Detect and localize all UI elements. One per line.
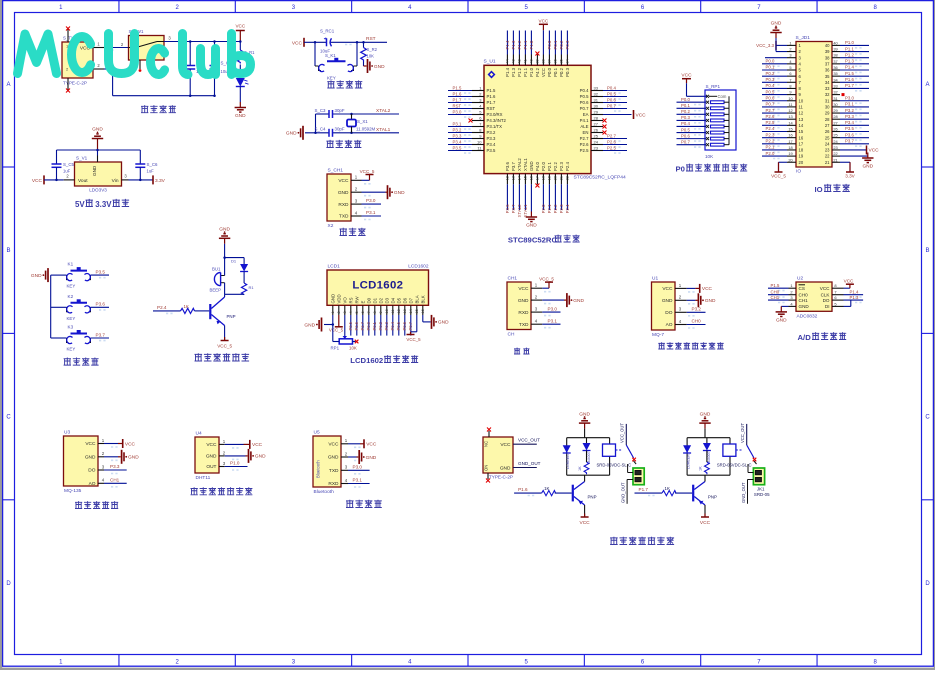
pin 1 CS — [768, 283, 805, 291]
svg-text:P3.6: P3.6 — [505, 204, 510, 213]
svg-text:LCD1602: LCD1602 — [350, 356, 383, 365]
svg-text:SRD-05VDC-SL-C: SRD-05VDC-SL-C — [597, 463, 632, 468]
wire alarm top — [223, 244, 244, 259]
svg-text:18: 18 — [542, 176, 546, 180]
pin 7 JD1 — [762, 77, 802, 85]
connector JK1 SRD-05 — [621, 464, 645, 504]
svg-text:C: C — [925, 415, 930, 421]
svg-text:STC89C52RC_LQFP44: STC89C52RC_LQFP44 — [574, 175, 626, 181]
pin 2 GND — [662, 295, 695, 304]
resistor network S_RP1 10K — [705, 84, 736, 159]
svg-text:SRD-05VDC-SL-C: SRD-05VDC-SL-C — [717, 463, 752, 468]
svg-text:2: 2 — [789, 47, 791, 52]
relay coil SRD-05VDC-SL-C — [597, 444, 632, 468]
capacitor S_C6 1uF — [135, 150, 158, 181]
pin 5 DI — [825, 300, 851, 309]
svg-text:S_R2: S_R2 — [367, 47, 378, 52]
svg-text:P0.0: P0.0 — [766, 59, 775, 64]
svg-text:19: 19 — [548, 176, 552, 180]
net XTAL1 — [376, 127, 391, 133]
svg-text:3.3V: 3.3V — [845, 174, 855, 179]
pin 33 JD1 — [825, 83, 869, 91]
svg-text:U3: U3 — [64, 430, 70, 436]
svg-text:14: 14 — [799, 123, 804, 128]
svg-text:28: 28 — [594, 116, 599, 121]
svg-text:P1.6: P1.6 — [453, 91, 462, 96]
connector JK1 SRD-05 — [741, 464, 770, 504]
transistor Q1 PNP — [209, 297, 235, 326]
title 电源电路 — [141, 105, 176, 113]
svg-text:P3.4: P3.4 — [845, 120, 854, 125]
pin 23 P2.5 — [580, 145, 627, 153]
title 按键电路 — [64, 358, 99, 366]
svg-text:P1.3: P1.3 — [845, 59, 854, 64]
svg-text:VCC_3.3: VCC_3.3 — [756, 43, 774, 48]
svg-text:S_C6: S_C6 — [147, 162, 159, 167]
capacitor S_RC1 10uF — [320, 29, 335, 54]
svg-text:29: 29 — [833, 108, 837, 113]
pin 3 TXD — [329, 465, 361, 474]
svg-text:P3.1: P3.1 — [453, 121, 462, 126]
svg-text:16: 16 — [788, 133, 792, 138]
pin 2 P1.6 — [448, 91, 496, 99]
pin 3 P1.7 — [448, 97, 496, 105]
svg-text:STC89C52RC: STC89C52RC — [508, 236, 558, 245]
wire xtal1 — [305, 132, 399, 135]
wire Vin — [122, 174, 154, 180]
ground GND mq7 — [698, 293, 716, 307]
resistor RP1.8 — [706, 143, 729, 146]
svg-text:RW: RW — [354, 295, 359, 303]
pin 24 JD1 — [825, 139, 869, 147]
svg-text:44: 44 — [506, 59, 510, 63]
pin 29 EA — [583, 110, 646, 120]
svg-text:GND: GND — [31, 273, 42, 279]
svg-text:P3.2: P3.2 — [692, 307, 702, 312]
svg-text:P2.2: P2.2 — [766, 139, 775, 144]
transistor Q PNP relay — [692, 475, 717, 517]
pin 34 JD1 — [825, 77, 869, 85]
svg-text:D: D — [925, 581, 930, 587]
svg-text:38: 38 — [825, 55, 830, 60]
svg-text:VCC_OUT: VCC_OUT — [740, 423, 745, 443]
svg-text:13: 13 — [403, 309, 407, 313]
svg-text:S_RP1: S_RP1 — [706, 84, 721, 89]
svg-text:P0.6: P0.6 — [681, 133, 690, 138]
svg-text:P0.1: P0.1 — [766, 65, 775, 70]
net P3.1 — [362, 210, 382, 216]
svg-text:CH0: CH0 — [799, 292, 809, 297]
svg-text:P3.2: P3.2 — [487, 130, 496, 135]
svg-text:10K: 10K — [349, 346, 357, 351]
svg-text:P2.0: P2.0 — [541, 204, 546, 213]
svg-text:GND: GND — [255, 454, 266, 460]
svg-text:20: 20 — [554, 176, 558, 180]
wire BLA to VCC_5 — [406, 315, 421, 342]
svg-text:GND: GND — [304, 322, 315, 328]
ground GND relay — [699, 411, 711, 428]
title A/D转换电路 — [798, 332, 847, 342]
net XTAL2 — [376, 108, 391, 114]
svg-text:P3.1: P3.1 — [548, 318, 558, 323]
pin 39 P4.2 — [535, 52, 540, 77]
svg-text:XTAL2: XTAL2 — [376, 108, 391, 114]
svg-text:B: B — [925, 248, 929, 254]
svg-text:P0.4: P0.4 — [607, 85, 616, 90]
svg-text:P3.0: P3.0 — [453, 109, 462, 114]
svg-text:P3.2: P3.2 — [453, 127, 462, 132]
pin 4 RST — [448, 103, 495, 111]
svg-text:P3.3: P3.3 — [110, 464, 120, 469]
svg-text:15: 15 — [524, 176, 528, 180]
power port VCC_5 VDD — [329, 315, 344, 333]
svg-text:PNP: PNP — [227, 314, 236, 319]
svg-text:10: 10 — [385, 309, 389, 313]
svg-text:13: 13 — [788, 114, 792, 119]
wire GND download — [362, 191, 388, 193]
svg-text:MQ-7: MQ-7 — [652, 332, 664, 338]
svg-text:4: 4 — [349, 311, 353, 313]
svg-text:P4.3/INT2: P4.3/INT2 — [487, 118, 507, 123]
pin 27 ALE — [580, 122, 606, 130]
net P3.3 mq135 — [104, 464, 127, 470]
svg-text:P1.1: P1.1 — [523, 40, 528, 49]
svg-text:P3.0: P3.0 — [845, 95, 854, 100]
svg-text:17: 17 — [788, 139, 792, 144]
resistor RP1.2 — [706, 107, 729, 110]
svg-text:GND: GND — [700, 411, 711, 417]
pin 42 P1.2 — [517, 31, 522, 77]
svg-text:6: 6 — [789, 71, 791, 76]
sensor U1 MQ-7 — [652, 276, 676, 339]
svg-text:1K: 1K — [544, 486, 549, 491]
display LCD1 LCD1602 — [327, 264, 429, 306]
pin 2 GND — [206, 450, 239, 459]
net P0.2 wire — [677, 109, 707, 117]
svg-text:PNP: PNP — [588, 495, 597, 500]
svg-text:VCC: VCC — [541, 68, 546, 77]
wire key bus — [50, 275, 52, 338]
pin 4 JD1 — [762, 59, 802, 67]
pin 2 GND — [85, 451, 118, 460]
net CH1 mq135 — [104, 478, 127, 484]
pin 29 JD1 — [825, 108, 869, 116]
net P0.3 wire — [677, 115, 707, 123]
svg-text:K2: K2 — [68, 294, 74, 299]
svg-text:39: 39 — [536, 59, 540, 63]
pin 1 GND — [330, 294, 335, 315]
svg-text:C: C — [6, 415, 11, 421]
net P3.1 serial — [542, 318, 560, 324]
svg-text:VCC_5: VCC_5 — [329, 328, 344, 333]
svg-text:P0.2: P0.2 — [681, 109, 690, 114]
svg-text:P3.3: P3.3 — [845, 114, 854, 119]
power port VCC mq135 — [104, 439, 136, 448]
pin 26 JD1 — [825, 126, 869, 134]
svg-text:26: 26 — [594, 128, 599, 133]
svg-text:GND: GND — [330, 294, 335, 304]
resistor 1K relay — [578, 451, 589, 475]
svg-text:VCC: VCC — [85, 441, 96, 447]
net P3.0 — [362, 198, 382, 204]
relay coil SRD-05VDC-SL-C — [717, 444, 752, 468]
svg-text:35: 35 — [825, 74, 830, 79]
net P0.4 wire — [677, 121, 707, 129]
svg-text:GND: GND — [526, 222, 537, 228]
svg-text:30pF: 30pF — [335, 127, 345, 132]
svg-text:26: 26 — [825, 129, 830, 134]
power port VCC relay — [580, 514, 591, 527]
svg-text:P3.6: P3.6 — [845, 132, 854, 137]
pin 15 XTAL1 — [523, 158, 528, 218]
svg-text:P0.4: P0.4 — [580, 88, 589, 93]
svg-text:P0.1: P0.1 — [553, 40, 558, 49]
svg-text:P1.2: P1.2 — [517, 40, 522, 49]
LED LGREEN relay — [683, 445, 691, 469]
svg-text:P4.0: P4.0 — [535, 162, 540, 171]
svg-text:VCC: VCC — [252, 442, 263, 448]
svg-text:39: 39 — [825, 49, 830, 54]
wire GND dht11 — [225, 455, 248, 457]
svg-text:3: 3 — [343, 311, 347, 313]
svg-text:1: 1 — [789, 40, 791, 45]
resistor S_R2 10K — [361, 42, 378, 66]
key K2 — [51, 294, 91, 321]
pin 10 P3.4 — [448, 139, 496, 147]
pin 33 P0.4 — [580, 85, 627, 93]
pin 38 VCC — [539, 18, 549, 77]
pin 19 JD1 — [762, 151, 804, 159]
svg-text:D1: D1 — [231, 259, 237, 264]
svg-text:NC: NC — [484, 441, 489, 447]
svg-text:7: 7 — [789, 77, 791, 82]
svg-text:37: 37 — [548, 59, 552, 63]
svg-text:A/D: A/D — [798, 333, 812, 342]
svg-text:RXD: RXD — [328, 481, 339, 487]
svg-text:P1.0: P1.0 — [529, 40, 534, 49]
pin 16 BLK — [420, 295, 425, 315]
svg-text:S_V1: S_V1 — [76, 156, 88, 161]
svg-text:P2.4: P2.4 — [766, 126, 775, 131]
svg-text:XTAL1: XTAL1 — [376, 127, 391, 133]
pin 37 P0.0 — [547, 31, 552, 77]
svg-text:3: 3 — [789, 53, 791, 58]
pin 28 JD1 — [825, 114, 869, 122]
ground GND serial — [567, 293, 585, 307]
title 串口 — [514, 348, 530, 355]
svg-text:LDO3V3: LDO3V3 — [89, 188, 107, 193]
svg-text:5: 5 — [355, 311, 359, 313]
svg-text:CH0: CH0 — [692, 319, 702, 324]
pin 14 D7 — [408, 297, 413, 335]
wire switch pin3 to VCC rail — [164, 36, 240, 42]
svg-text:P0.2: P0.2 — [559, 40, 564, 49]
svg-text:37: 37 — [825, 61, 830, 66]
pin 20 P2.2 — [553, 162, 558, 214]
svg-text:P0.2: P0.2 — [378, 321, 383, 330]
pin 4 AO — [89, 478, 118, 487]
svg-text:BLK: BLK — [420, 295, 425, 303]
svg-text:Bluetooth: Bluetooth — [316, 460, 321, 478]
pin 9 D2 — [378, 297, 383, 335]
svg-text:8: 8 — [373, 311, 377, 313]
svg-text:D5: D5 — [396, 297, 401, 303]
svg-text:TXD: TXD — [329, 468, 339, 474]
svg-text:P3.5: P3.5 — [96, 269, 106, 274]
svg-text:VCC: VCC — [292, 40, 303, 46]
svg-text:VCC_5: VCC_5 — [217, 344, 232, 349]
net P0.0 wire — [677, 97, 707, 105]
connector CH1 serial — [507, 276, 531, 338]
resistor RP1.6 — [706, 131, 729, 134]
title 下载口 — [340, 228, 366, 236]
pin 21 P2.3 — [559, 162, 564, 214]
pin 36 JD1 — [825, 65, 869, 73]
net RST — [345, 36, 376, 45]
ground GND reset — [368, 59, 386, 73]
svg-text:CH: CH — [508, 332, 515, 338]
pin 8 D1 — [372, 297, 377, 335]
svg-text:P3.3: P3.3 — [487, 136, 496, 141]
ground GND mcu — [526, 212, 538, 229]
svg-text:GND: GND — [799, 304, 810, 309]
pin 8 JD1 — [762, 83, 802, 91]
pin 5 JD1 — [762, 65, 802, 73]
svg-text:VCC: VCC — [702, 286, 713, 292]
resistor S_R1 1K — [238, 42, 256, 64]
pin 6 P4.3/INT2 — [469, 116, 507, 124]
net P3.6 wire — [91, 302, 110, 310]
svg-text:17: 17 — [536, 176, 540, 180]
svg-text:P3.1: P3.1 — [366, 210, 376, 215]
svg-text:P3.0: P3.0 — [366, 198, 376, 203]
svg-text:P1.3: P1.3 — [511, 40, 516, 49]
svg-text:GND: GND — [771, 21, 782, 27]
pin 3 RXD — [338, 199, 370, 208]
svg-text:31: 31 — [825, 98, 830, 103]
ground GND jd1 top — [770, 21, 782, 38]
diode 1N4007 relay — [703, 443, 711, 464]
svg-text:S_U1: S_U1 — [484, 59, 496, 65]
svg-text:S_RC1: S_RC1 — [320, 29, 335, 34]
svg-text:19: 19 — [788, 151, 792, 156]
pin 23 JD1 — [825, 145, 879, 155]
title 继电器控制电路 — [610, 537, 674, 545]
svg-text:TXD: TXD — [519, 322, 529, 328]
svg-text:S_C4: S_C4 — [315, 127, 327, 132]
pin 35 P0.2 — [559, 31, 564, 77]
net VCC_OUT wire — [513, 438, 540, 445]
resistor RP1.5 — [706, 125, 729, 128]
svg-text:GND: GND — [92, 127, 103, 133]
pin NC bottom — [66, 78, 70, 93]
svg-text:30: 30 — [594, 104, 599, 109]
svg-text:GND: GND — [338, 190, 349, 196]
ground GND relay — [579, 411, 591, 428]
svg-text:ON: ON — [484, 465, 489, 471]
svg-text:P1.6: P1.6 — [845, 77, 854, 82]
port VCC input — [32, 175, 44, 184]
pin 27 JD1 — [825, 120, 869, 128]
pin 44 P1.4 — [505, 31, 510, 77]
svg-text:GND: GND — [85, 455, 96, 461]
svg-text:VCC: VCC — [32, 178, 43, 184]
svg-text:P2.2: P2.2 — [553, 162, 558, 171]
svg-text:EA: EA — [583, 112, 589, 117]
svg-text:VCC: VCC — [662, 286, 673, 292]
svg-text:24: 24 — [594, 140, 599, 145]
svg-text:P1.7: P1.7 — [845, 83, 854, 88]
svg-text:21: 21 — [833, 157, 837, 162]
title IO拓展口 — [815, 184, 850, 194]
pin 32 P0.5 — [580, 91, 627, 99]
svg-text:RST: RST — [453, 103, 462, 108]
net P3.2 mq7 — [687, 307, 706, 313]
svg-text:18: 18 — [788, 145, 792, 150]
svg-text:RXD: RXD — [338, 202, 349, 208]
svg-text:P1.3: P1.3 — [850, 295, 859, 300]
svg-text:D6: D6 — [402, 297, 407, 303]
pin 17 P4.0 — [535, 162, 540, 188]
pin 31 P0.6 — [580, 97, 627, 105]
pin 10 JD1 — [762, 95, 804, 103]
pin 41 P1.1 — [523, 31, 528, 77]
net GND_OUT wire — [513, 461, 541, 468]
svg-text:VCC: VCC — [820, 286, 830, 291]
svg-text:12: 12 — [788, 108, 792, 113]
svg-text:GND_OUT: GND_OUT — [518, 461, 541, 466]
svg-text:GND: GND — [776, 317, 787, 323]
switch S_SW1 — [129, 29, 165, 69]
svg-text:VCC: VCC — [869, 148, 880, 154]
svg-text:VCC_OUT: VCC_OUT — [518, 438, 540, 443]
svg-text:XTAL1: XTAL1 — [523, 158, 528, 171]
svg-text:1K: 1K — [184, 304, 189, 309]
svg-text:39: 39 — [833, 47, 837, 52]
crystal S_X1 11.0592M — [347, 114, 376, 133]
pin 1 VCC — [206, 439, 238, 448]
svg-text:P3.4: P3.4 — [487, 142, 496, 147]
pin 4 TXD — [519, 319, 551, 328]
pin 25 JD1 — [825, 132, 869, 140]
power port VCC dht11 — [225, 440, 263, 449]
svg-text:P2.7: P2.7 — [607, 133, 616, 138]
svg-text:P1.0: P1.0 — [845, 40, 854, 45]
svg-text:P3.0: P3.0 — [548, 306, 558, 311]
svg-text:25: 25 — [825, 135, 830, 140]
LED D1 — [236, 65, 249, 103]
svg-text:S_C3: S_C3 — [315, 108, 327, 113]
svg-text:10: 10 — [477, 140, 482, 145]
pin 5 P3.0/RX — [448, 109, 503, 117]
svg-text:IO: IO — [796, 169, 801, 175]
svg-text:P1.7: P1.7 — [639, 487, 649, 492]
svg-text:22: 22 — [825, 154, 830, 159]
svg-text:21: 21 — [560, 176, 564, 180]
svg-text:41: 41 — [524, 59, 528, 63]
svg-text:P0.4: P0.4 — [390, 321, 395, 330]
svg-text:U1: U1 — [652, 276, 658, 282]
pin 18 JD1 — [762, 145, 804, 153]
svg-text:13: 13 — [799, 117, 804, 122]
svg-text:D: D — [6, 581, 11, 587]
svg-text:P1.6: P1.6 — [487, 94, 496, 99]
svg-text:P1.4: P1.4 — [845, 65, 854, 70]
wire GND mq135 — [104, 456, 121, 458]
svg-text:P1.1: P1.1 — [845, 46, 854, 51]
title 蓝牙模块 — [346, 500, 382, 508]
svg-text:K3: K3 — [68, 325, 74, 330]
